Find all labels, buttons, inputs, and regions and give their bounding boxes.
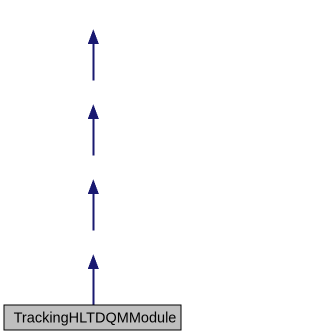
svg-text:TrackingHLTDQMModule: TrackingHLTDQMModule: [14, 310, 177, 326]
inheritance arrow 2: [88, 104, 99, 155]
inheritance arrow 4 (above class box): [88, 254, 99, 304]
inheritance arrow 3: [88, 179, 99, 230]
inheritance arrow 1 (topmost): [88, 29, 99, 80]
class box TrackingHLTDQMModule: [4, 305, 181, 330]
